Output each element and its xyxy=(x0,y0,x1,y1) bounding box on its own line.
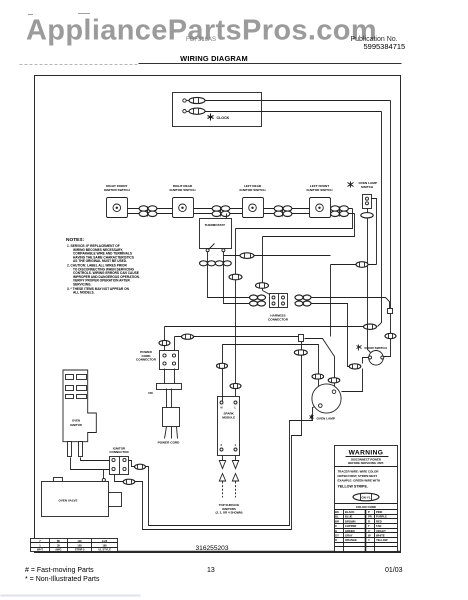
wire clock2 horizontal xyxy=(206,111,382,113)
svg-text:UL STYLE: UL STYLE xyxy=(98,548,111,552)
connector on x235 upper xyxy=(229,274,242,280)
svg-text:IGNITOR SWITCH: IGNITOR SWITCH xyxy=(240,188,267,192)
svg-text:BL: BL xyxy=(335,515,339,519)
wire thermostat left down xyxy=(208,252,250,298)
svg-text:IGNITOR SWITCH: IGNITOR SWITCH xyxy=(170,188,197,192)
svg-text:TAN: TAN xyxy=(376,524,381,528)
svg-text:(2, 3, OR 4 SHOWN): (2, 3, OR 4 SHOWN) xyxy=(216,511,243,515)
connector on x262 xyxy=(256,283,269,289)
wire ignitor leg2 xyxy=(81,458,110,461)
svg-text:P: P xyxy=(368,510,370,514)
svg-text:BR: BR xyxy=(335,519,339,523)
wire harness right lower xyxy=(312,304,357,367)
scan speck top 2 xyxy=(78,13,90,15)
connector lamp left feed xyxy=(312,374,324,379)
connector on y264 xyxy=(356,262,368,268)
svg-text:FGF316AS: FGF316AS xyxy=(186,37,216,43)
spark module xyxy=(218,397,240,456)
header rule faint left xyxy=(20,64,139,66)
model number FGF316 xyxy=(186,37,216,43)
connector pair P1 xyxy=(139,206,157,217)
svg-text:C: C xyxy=(335,524,337,528)
splice box xyxy=(299,335,304,342)
svg-text:OVEN LAMP: OVEN LAMP xyxy=(317,417,335,421)
door switch label xyxy=(357,345,388,351)
svg-text:BLACK: BLACK xyxy=(345,510,354,514)
svg-text:PURPLE: PURPLE xyxy=(376,515,387,519)
wire x262 into harness xyxy=(263,291,274,297)
frame (diagram border) xyxy=(35,76,401,553)
svg-text:WHITE: WHITE xyxy=(376,534,385,538)
oven ignitor xyxy=(63,370,96,457)
svg-text:# = Fast-moving Parts: # = Fast-moving Parts xyxy=(25,567,94,574)
svg-text:* = Non-Illustrated Parts: * = Non-Illustrated Parts xyxy=(25,576,100,583)
notes block xyxy=(66,237,140,295)
power cord strain relief xyxy=(157,369,182,408)
ignitor switch S4 left front xyxy=(307,184,334,218)
wire branch y255 xyxy=(224,255,331,257)
connector wire B lower xyxy=(123,479,135,484)
svg-text:5995384715: 5995384715 xyxy=(364,42,406,51)
wire long y336 xyxy=(175,336,299,338)
svg-text:THERMOSTAT: THERMOSTAT xyxy=(205,223,226,227)
clock box xyxy=(173,93,262,127)
svg-text:POWER CORD: POWER CORD xyxy=(158,441,180,445)
svg-text:VIOLET: VIOLET xyxy=(376,529,386,533)
ignitor switch S1 right front xyxy=(104,184,131,218)
oven lamp label xyxy=(310,415,335,421)
svg-text:NOTED FIRST, STRIPE NEXT.: NOTED FIRST, STRIPE NEXT. xyxy=(338,474,378,478)
svg-text:PR: PR xyxy=(368,515,372,519)
wire splice right xyxy=(305,339,335,392)
clock label xyxy=(208,114,230,121)
scan speck top xyxy=(28,14,33,16)
oven lamp switch xyxy=(348,181,377,208)
oven valve xyxy=(42,478,122,517)
power cord plug xyxy=(158,408,180,445)
wire clock1 into door switch xyxy=(384,346,391,357)
module output arrows xyxy=(219,456,238,498)
connector above power conn xyxy=(159,340,170,345)
svg-text:CLOCK: CLOCK xyxy=(217,116,230,120)
splice node right bus xyxy=(388,309,393,314)
svg-text:BK: BK xyxy=(335,510,339,514)
svg-text:IGNITOR SWITCH: IGNITOR SWITCH xyxy=(104,188,131,192)
wire door switch to lamp xyxy=(363,358,369,364)
connector on y255 xyxy=(240,253,254,259)
svg-text:SWITCH: SWITCH xyxy=(361,185,374,189)
wire x330 down xyxy=(330,265,332,337)
svg-text:145: 145 xyxy=(77,539,82,543)
connector wire A xyxy=(135,464,146,469)
svg-text:ORANGE: ORANGE xyxy=(345,538,357,542)
svg-text:BEFORE SERVICING UNIT.: BEFORE SERVICING UNIT. xyxy=(348,461,384,465)
svg-text:CONNECTOR: CONNECTOR xyxy=(136,358,157,362)
mini table xyxy=(31,539,118,552)
svg-text:V: V xyxy=(368,529,370,533)
harness connector xyxy=(268,294,289,322)
connector pair harness right lower xyxy=(295,301,311,306)
ignitor switch S2 right rear xyxy=(170,184,197,218)
wire power conn up right xyxy=(174,337,176,351)
wire row top wrap xyxy=(236,209,353,229)
svg-text:PINK: PINK xyxy=(376,510,382,514)
svg-text:COPPER: COPPER xyxy=(345,524,356,528)
wire row bottom wrap xyxy=(263,214,355,237)
svg-text:WIRING DIAGRAM: WIRING DIAGRAM xyxy=(180,54,248,63)
connector pair harness left upper xyxy=(250,295,266,300)
wire thermostat right down xyxy=(224,252,250,304)
svg-text:BROWN: BROWN xyxy=(345,519,356,523)
svg-text:VIO: VIO xyxy=(148,391,154,395)
wire module L feed xyxy=(235,229,237,402)
svg-text:ALL MODELS.: ALL MODELS. xyxy=(73,291,95,295)
svg-text:STRIP 5: STRIP 5 xyxy=(75,548,85,552)
svg-text:AWG: AWG xyxy=(55,548,61,552)
svg-text:NOTES:: NOTES: xyxy=(66,237,85,243)
svg-text:RED: RED xyxy=(376,519,382,523)
svg-text:R: R xyxy=(368,519,370,523)
svg-text:Y: Y xyxy=(368,538,370,542)
publication number xyxy=(351,36,406,51)
title WIRING DIAGRAM xyxy=(180,54,248,63)
svg-text:WARNING: WARNING xyxy=(349,450,384,457)
scan artifact bottom left xyxy=(1,595,141,597)
footer xyxy=(25,567,403,583)
svg-text:GRAY: GRAY xyxy=(345,534,353,538)
svg-text:IGNITOR: IGNITOR xyxy=(70,423,82,427)
oven lamp xyxy=(312,384,341,413)
svg-text:WHT: WHT xyxy=(37,548,43,552)
wire long y326 xyxy=(165,326,364,328)
wire y264 xyxy=(331,264,377,266)
connector pair harness right upper xyxy=(295,295,311,300)
svg-text:105: 105 xyxy=(77,543,82,547)
wire module N to lamp xyxy=(223,345,321,406)
warning box xyxy=(335,446,398,552)
color code table xyxy=(335,510,398,552)
svg-text:OVEN VALVE: OVEN VALVE xyxy=(59,499,78,503)
svg-text:G: G xyxy=(335,529,337,533)
connector right bus xyxy=(385,333,396,338)
connector wire B upper xyxy=(294,350,307,355)
connector clock2 end xyxy=(364,324,377,330)
connector pair harness left lower xyxy=(250,301,266,306)
power cord connector xyxy=(160,351,179,370)
svg-text:YELLOW: YELLOW xyxy=(376,538,388,542)
connector door-lamp xyxy=(349,364,361,369)
svg-text:BLUE: BLUE xyxy=(345,515,353,519)
ignitor connector xyxy=(110,457,129,475)
connector pair P4 xyxy=(331,206,349,217)
connector pair thermostat left xyxy=(200,261,216,266)
connector lamp top feed xyxy=(328,378,340,383)
connector pair P2 xyxy=(212,206,230,217)
wire switch row top xyxy=(128,208,353,210)
header rule xyxy=(139,63,402,65)
svg-text:O: O xyxy=(335,538,337,542)
svg-text:IGNITOR SWITCH: IGNITOR SWITCH xyxy=(307,188,334,192)
svg-text:GN-YL: GN-YL xyxy=(361,495,371,499)
wire lamp switch top right xyxy=(372,199,377,265)
watermark AppliancePartsPros.com xyxy=(26,15,377,47)
wire ignitor leg1 xyxy=(71,458,110,470)
svg-text:N: N xyxy=(221,405,223,409)
wire harness right upper xyxy=(312,298,390,309)
wire B loop xyxy=(115,342,302,530)
connector module N xyxy=(217,363,228,368)
svg-text:MODULE: MODULE xyxy=(222,416,235,420)
svg-text:13: 13 xyxy=(207,567,215,574)
wire power conn up left xyxy=(164,327,166,351)
wire clock2 right bus down xyxy=(378,112,382,327)
thermostat xyxy=(200,214,232,252)
svg-text:GY: GY xyxy=(335,534,339,538)
svg-text:CONNECTOR: CONNECTOR xyxy=(109,450,129,454)
connector on y336 xyxy=(182,334,194,339)
connector pair thermostat right xyxy=(215,261,231,266)
wire clock1 right bus down xyxy=(390,101,392,346)
top surface ignitors label xyxy=(216,503,243,515)
clock terminal 1 xyxy=(183,97,205,103)
svg-text:195: 195 xyxy=(102,543,107,547)
svg-text:COLOR CODE: COLOR CODE xyxy=(356,505,376,509)
connector lamp switch xyxy=(361,213,373,218)
svg-text:316255203: 316255203 xyxy=(195,545,228,552)
connector pair P3 xyxy=(274,206,292,217)
ignitor connector label xyxy=(109,446,129,454)
wire A loop xyxy=(129,406,319,526)
wire clock1 horizontal xyxy=(206,100,391,102)
svg-text:CONNECTOR: CONNECTOR xyxy=(268,317,289,321)
svg-text:GREEN: GREEN xyxy=(345,529,355,533)
clock terminal 2 xyxy=(183,108,205,114)
wire lamp switch into door switch xyxy=(368,347,371,353)
svg-text:2-23: 2-23 xyxy=(102,539,108,543)
door switch xyxy=(369,351,384,366)
svg-text:01/03: 01/03 xyxy=(385,567,403,574)
svg-text:EXAMPLE: GREEN WIRE WITH: EXAMPLE: GREEN WIRE WITH xyxy=(338,479,381,483)
svg-text:YELLOW STRIPE.: YELLOW STRIPE. xyxy=(338,485,368,489)
wire door-lamp down xyxy=(342,369,363,392)
wire switch row bottom xyxy=(128,213,355,215)
wire valve terminal up xyxy=(103,470,105,479)
wire harness top feed xyxy=(262,237,264,291)
wire lamp switch down xyxy=(367,209,369,347)
power cord connector label xyxy=(136,350,157,362)
svg-text:TRACER WIRE: WIRE COLO: TRACER WIRE: WIRE COLOR xyxy=(338,470,380,474)
ignitor switch S3 left rear xyxy=(240,184,267,218)
connector module L xyxy=(230,383,241,388)
